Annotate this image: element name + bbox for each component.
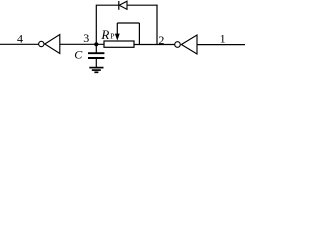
svg-text:2: 2 bbox=[158, 33, 164, 47]
svg-text:1: 1 bbox=[220, 31, 226, 45]
resistor RP box bbox=[104, 41, 134, 47]
resistor RP wiper arrow head bbox=[115, 34, 120, 41]
ground bar 2 bbox=[92, 69, 101, 71]
wire capacitor bottom lead bbox=[95, 58, 97, 67]
capacitor C bottom plate bbox=[88, 57, 104, 59]
node 3 junction dot bbox=[94, 42, 98, 46]
svg-text:3: 3 bbox=[83, 31, 89, 45]
op-amp U2 left inverter triangle bbox=[45, 35, 60, 54]
wire top-branch left vertical bbox=[95, 5, 97, 45]
wire wiper horizontal bbox=[117, 22, 139, 24]
svg-text:4: 4 bbox=[17, 32, 23, 46]
wire node3 (left inverter input to resistor) bbox=[60, 43, 104, 45]
ground bar 3 bbox=[94, 71, 98, 73]
wire 4 (output of left inverter to left edge) bbox=[0, 43, 38, 45]
svg-text:P: P bbox=[110, 31, 114, 40]
op-amp U2 left inverter bubble bbox=[39, 41, 44, 46]
op-amp U1 right inverter triangle bbox=[181, 35, 197, 54]
wire wiper right vertical bbox=[138, 23, 140, 45]
diode VD cathode bar bbox=[118, 1, 120, 10]
wire top-branch right vertical bbox=[156, 5, 158, 45]
wire top-branch horizontal right of diode bbox=[127, 4, 158, 6]
wire 1 (right inverter input to right edge) bbox=[197, 44, 245, 46]
op-amp U1 right inverter bubble bbox=[175, 42, 181, 48]
diode VD triangle bbox=[119, 1, 127, 9]
capacitor C top plate bbox=[88, 52, 104, 54]
wire top-branch horizontal left of diode bbox=[96, 4, 119, 6]
wire node2 (resistor to right inverter) bbox=[134, 44, 175, 46]
svg-text:C: C bbox=[74, 47, 83, 61]
svg-text:R: R bbox=[100, 27, 109, 42]
resistor RP wiper arrow shaft bbox=[116, 23, 118, 35]
ground bar 1 bbox=[89, 67, 103, 69]
wire capacitor top lead bbox=[95, 44, 97, 53]
